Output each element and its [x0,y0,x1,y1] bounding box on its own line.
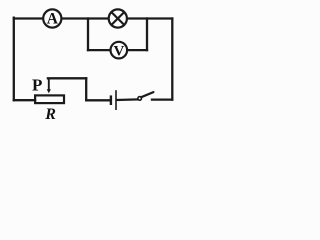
ammeter U1: circle [43,9,61,27]
switch S1: pivot circle [138,97,142,101]
wire: top-left horizontal (battery loop top, left of ammeter) [14,17,43,19]
switch S1: blade (open) [141,92,153,97]
wire: rheostat wiper horizontal arm [48,77,86,79]
wire: wiper arm right vertical drop [85,78,87,100]
rheostat R: resistor box [35,95,64,103]
wire: top horizontal right of lamp to top-right corner [128,17,173,19]
rheostat R: wiper arrow stem [48,78,50,91]
lamp L1: X diagonals [111,12,124,25]
wire: voltmeter branch right horizontal out of voltmeter [127,49,147,51]
rheostat R: wiper arrowhead [47,89,51,93]
lamp L1: circle [109,9,127,27]
wire: top horizontal between ammeter and lamp [62,17,108,19]
svg-text:A: A [47,11,59,28]
battery B1: positive plate (long, thin) [115,90,117,110]
wire: voltmeter branch left drop from node at top wire [87,19,89,51]
voltmeter U2: circle [111,42,128,59]
svg-text:V: V [113,43,124,59]
wire: bottom-right horizontal to switch contact [152,98,172,100]
wire: voltmeter branch right riser to top wire node [146,19,148,51]
wire: right vertical side [171,19,173,100]
svg-text:P: P [32,75,42,94]
wire: bottom-left horizontal to rheostat [14,99,35,101]
wire: left vertical side [13,18,15,101]
wire: voltmeter branch left horizontal into voltmeter [88,49,111,51]
wire: battery to switch pivot [117,98,138,101]
battery B1: negative plate (short, thick) [110,95,112,105]
svg-text:R: R [44,106,56,123]
wire: bottom horizontal from wiper drop to battery [86,99,110,101]
